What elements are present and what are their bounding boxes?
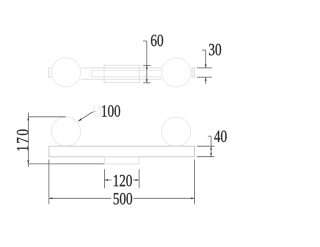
- dim 40: leader foot: [208, 135, 211, 137]
- leader 100: arrowhead: [78, 118, 82, 121]
- dim 60: label: [151, 35, 163, 47]
- front view: right ball: [161, 117, 190, 146]
- dim 60: top arrow: [146, 65, 148, 69]
- dim 40: vertical line: [210, 136, 212, 157]
- top view: left end cap: [49, 68, 52, 77]
- dim 170: vertical line: [27, 113, 29, 167]
- dim 30: top tick: [197, 67, 212, 69]
- dim 40: top arrow: [210, 146, 212, 150]
- dim 60: vertical line: [146, 41, 148, 83]
- leader 100: faint diameter symbol: [93, 105, 102, 117]
- dim 170: top extension to ball apex: [28, 116, 66, 118]
- front view: canopy plate below bar: [104, 157, 139, 164]
- top view: collar edge at arm start: [91, 70, 93, 76]
- top view: right stub bottom: [191, 76, 193, 78]
- dim 60: bottom tick: [143, 82, 151, 84]
- top view: bar outer bottom edge: [81, 78, 162, 80]
- leader 100: label: [102, 105, 120, 117]
- dim 500: left segment: [49, 197, 111, 199]
- dim 30: bottom arrow: [205, 77, 207, 81]
- dim 500: right segment: [134, 197, 195, 199]
- dim 30: vertical tail lower: [205, 77, 207, 84]
- dim 170: label rotated: [17, 130, 29, 151]
- dim 40: top tick: [197, 145, 214, 147]
- top view: bar outer top edge: [81, 67, 162, 69]
- dim 500: label: [114, 193, 133, 205]
- front view: left ball: [51, 117, 80, 146]
- dim 500: right extension line: [194, 160, 196, 205]
- dim 60: top tick: [143, 64, 151, 66]
- dim 120: left arrow: [104, 179, 108, 181]
- dim 30: bottom tick: [197, 76, 212, 78]
- dim 120: left segment: [104, 179, 111, 181]
- top view: canopy plate: [104, 65, 139, 82]
- dim 120: right segment: [133, 179, 139, 181]
- dim 120: right extension line: [138, 169, 140, 188]
- dim 60: bottom arrow: [146, 79, 148, 83]
- top view: bar inner top line: [92, 69, 162, 71]
- dim 40: bottom tick: [197, 156, 214, 158]
- dim 170: bottom extension to plate corner: [28, 163, 104, 165]
- dim 500: right arrow: [191, 197, 195, 199]
- dim 40: bottom arrow: [210, 153, 212, 157]
- dim 500: left arrow: [49, 197, 53, 199]
- dim 170: top arrow: [27, 117, 29, 121]
- dim 60: leader foot: [143, 40, 147, 42]
- dim 120: label: [114, 175, 132, 187]
- dim 30: top arrow: [205, 64, 207, 68]
- dim 500: left extension line: [48, 160, 50, 205]
- top view: bar inner bottom line: [92, 76, 162, 78]
- top view: right stub top: [191, 69, 193, 71]
- dim 30: leader foot: [202, 49, 206, 51]
- top view: left ball: [51, 58, 80, 87]
- dim 120: right arrow: [136, 179, 140, 181]
- dim 40: label: [214, 131, 226, 143]
- top view: right ball: [162, 58, 191, 87]
- dim 30: vertical line upper: [205, 50, 207, 68]
- dim 30: label: [209, 44, 221, 56]
- front view: bar body: [49, 146, 195, 157]
- dim 120: left extension line: [103, 169, 105, 188]
- leader 100: curved leader line: [78, 111, 95, 121]
- dim 170: bottom arrow: [27, 160, 29, 164]
- top view: right end cap: [192, 68, 194, 77]
